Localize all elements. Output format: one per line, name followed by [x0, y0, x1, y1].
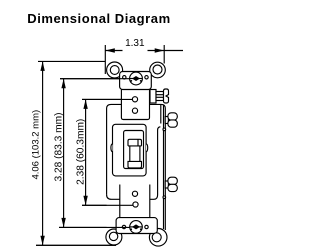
dim 4.06 arrow top: [40, 61, 44, 71]
bottom right ear: [149, 229, 167, 247]
bottom left ear hole: [109, 232, 117, 240]
dim 1.31 dimension line: [105, 50, 183, 52]
dim 1.31 extension line left: [104, 45, 106, 74]
dim 1.31 arrow right: [155, 48, 165, 52]
dim 2.38 extension top: [82, 98, 132, 100]
bottom left ear: [106, 229, 122, 245]
toggle opening: [124, 131, 144, 169]
dim 3.28 arrow bottom: [61, 218, 65, 228]
toggle bat bottom flange: [128, 161, 142, 168]
dim 2.38 extension bottom: [82, 204, 133, 206]
neck hole 1: [132, 97, 137, 102]
dim 2.38 dimension line: [85, 99, 87, 205]
dim 2.38 arrow bottom: [83, 196, 87, 206]
top mounting screw threads: [156, 92, 164, 95]
top right ear: [150, 62, 166, 78]
bottom plate hole right: [145, 225, 148, 228]
dim 3.28 dimension line: [63, 79, 65, 228]
bottom neck hole 2: [133, 202, 138, 207]
dim 3.28 arrow top: [61, 79, 65, 89]
top left ear: [107, 62, 123, 78]
top strap neck: [121, 91, 149, 120]
rivet circle: [163, 128, 166, 131]
dim 4.06 dimension line: [42, 61, 44, 245]
right bump: [146, 144, 148, 152]
left bump: [111, 144, 113, 152]
dim 1.31 extension line right: [163, 45, 165, 64]
dim 4.06 label: [30, 110, 41, 180]
dim 2.38 label: [76, 119, 87, 185]
lower rivet circle: [163, 196, 166, 199]
dim 1.31 arrow left: [105, 48, 115, 52]
lower terminal screw: [165, 177, 177, 191]
bottom mounting screw head front: [130, 221, 143, 234]
dim 3.28 extension bottom: [59, 226, 130, 228]
dim 2.38 arrow top: [83, 99, 87, 109]
top mounting screw head front: [130, 72, 143, 85]
extension lines overdraw: [36, 79, 133, 246]
bottom neck: [120, 185, 150, 219]
top mounting screw side view shank: [150, 90, 156, 104]
svg-text:4.06 (103.2 mm): 4.06 (103.2 mm): [30, 110, 41, 180]
neck hole 2: [132, 108, 137, 113]
dim 4.06 extension top: [38, 60, 105, 62]
dim 3.28 label: [53, 112, 64, 181]
top mounting screw head: [164, 89, 169, 103]
svg-text:3.28 (83.3 mm): 3.28 (83.3 mm): [53, 112, 64, 181]
bottom right ear hole: [152, 233, 161, 242]
dim 4.06 extension bottom: [36, 244, 116, 246]
bottom neck hole 1: [132, 191, 137, 196]
dim 4.06 arrow bottom: [40, 236, 44, 246]
switch outer body: [107, 104, 166, 230]
side strip inner line: [163, 106, 165, 230]
toggle bat top flange: [128, 139, 142, 146]
svg-text:1.31: 1.31: [125, 38, 145, 49]
svg-text:Dimensional Diagram: Dimensional Diagram: [27, 11, 170, 26]
top strap plate hole left: [123, 76, 126, 79]
toggle bat inner edge: [137, 139, 139, 146]
dim 3.28 extension top: [60, 78, 130, 80]
top strap plate: [120, 72, 152, 90]
upper terminal screw: [165, 113, 177, 127]
inner face: [113, 124, 147, 176]
dim 1.31 text: [125, 38, 145, 49]
toggle bat web: [128, 146, 142, 162]
svg-text:2.38 (60.3mm): 2.38 (60.3mm): [76, 119, 87, 185]
bottom strap plate: [116, 218, 157, 234]
top strap plate hole right: [145, 76, 148, 79]
bottom plate hole left: [122, 225, 125, 228]
